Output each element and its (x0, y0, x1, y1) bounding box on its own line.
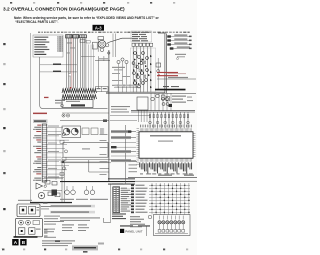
connector CN601 header text (112, 183, 131, 184)
wire links (110, 116, 150, 121)
legend block (power supply note box) (33, 35, 63, 57)
regulator block IC202 (137, 97, 148, 122)
red net label REMOTE (33, 113, 47, 115)
capacitor C103 (108, 52, 110, 54)
component cluster near CN102 (80, 40, 90, 44)
badge A (12, 239, 18, 245)
block motor unit (62, 126, 81, 138)
model tag grey box (72, 245, 98, 252)
drive motor M101 (98, 37, 106, 48)
wire shield bus bottom-left (30, 202, 72, 203)
wire bus tap lead 2 (167, 39, 191, 42)
guide badge A-3 (93, 25, 105, 31)
wire bus top corner (158, 32, 166, 34)
wire pair to Q103 (113, 34, 116, 58)
net label rows above badge (120, 225, 150, 226)
wire CN601 left drop (110, 183, 112, 222)
op-amp IC301 (36, 183, 43, 189)
connector CN601 (dual-row pin strip) (113, 187, 120, 213)
connector CN201 pins (132, 43, 153, 46)
components on CN301 wires (60, 133, 68, 176)
wire ribbon B (4 wires) (81, 38, 86, 89)
component designator labels row across schematic top (38, 32, 190, 33)
motor M2 (loading) (71, 128, 78, 135)
resistor network R302 (52, 181, 57, 185)
pin labels left of CN301 (33, 125, 41, 181)
IC101 mechanism driver (62, 100, 93, 108)
wires to power bus (151, 93, 171, 111)
label band cells above bus (114, 84, 140, 87)
key matrix grid (149, 183, 190, 215)
capacitor C102 (106, 44, 109, 47)
labels right of CN601 (120, 188, 131, 212)
net labels near bus (111, 106, 130, 113)
svg-text:74: 74 (2, 248, 6, 252)
wire collector bus right of CN301 (55, 128, 57, 180)
IC501 bottom pin labels (vertical) (139, 162, 193, 174)
resistor R303 (48, 192, 53, 196)
legend text rows (50, 199, 108, 231)
transistor array Q201-Q212 (130, 48, 156, 92)
IC501 right pin ticks (193, 134, 196, 157)
wire horizontal bus (double) (106, 92, 196, 93)
wire ribbon C (6 wires) (133, 46, 151, 92)
wire mech line 1 (62, 112, 109, 114)
wire to bus (95, 60, 110, 62)
regulator blocks (162, 95, 170, 101)
bottom black bar under box2 (14, 236, 38, 238)
labels above divider (158, 175, 194, 176)
label box CN103 (96, 87, 109, 92)
small dash mark (55, 240, 60, 241)
IC501 system control microcomputer (139, 132, 193, 158)
wire divider 2 (128, 180, 197, 182)
wire audio lines (43, 160, 64, 202)
resistor R304 (55, 193, 60, 197)
capacitors C110 C111 (62, 114, 70, 117)
wire key lead 1 (red) (157, 72, 186, 74)
wire drop (89, 160, 109, 172)
wire cap link (103, 56, 105, 61)
transistors Q103-Q105 (112, 58, 130, 93)
net label block right (162, 86, 194, 107)
sub text rows upper (44, 97, 65, 107)
labels left of IC501 rows (129, 161, 138, 172)
wire vertical link x125 (124, 125, 126, 184)
flexible flat cable connector CN103 (zigzag) (62, 87, 97, 99)
registration marks top margin (10, 2, 175, 4)
wires right of CN301 with labels (47, 126, 69, 179)
wire mute line with arrow (61, 161, 110, 164)
wire keys to matrix (146, 226, 148, 236)
badge B (20, 239, 26, 245)
wire key lead 2 (red) (157, 75, 178, 76)
wire mech line 2 (60, 120, 109, 122)
capacitor C101 (100, 48, 104, 52)
ribbon bus rows to IC501 (111, 130, 136, 161)
wire CN601 to bus (104, 218, 111, 223)
connector CN301 tall pin strip (42, 124, 47, 182)
transistor pair Q401 Q402 (65, 186, 76, 195)
block audio board outline (63, 143, 108, 158)
wire audio out 1 (62, 159, 111, 161)
resistor/transistor drop array (149, 112, 190, 128)
ribbon tiny labels (67, 43, 76, 54)
panel keys box (148, 215, 190, 236)
relay RY301 (dark) (52, 190, 58, 196)
svg-text:“ELECTRICAL PARTS LIST”.: “ELECTRICAL PARTS LIST”. (15, 20, 59, 24)
wire divider (128, 177, 197, 179)
rear panel box 2 (AV jacks) (16, 218, 43, 236)
rectifier D101 (93, 42, 98, 49)
wire bus tap lead 4 (170, 47, 192, 50)
label for box1 (41, 206, 51, 209)
wire audio out 2 (62, 162, 111, 164)
svg-text:A-3: A-3 (95, 26, 102, 31)
svg-text:PANEL UNIT: PANEL UNIT (125, 229, 143, 233)
registration marks bottom margin (2, 243, 188, 251)
italic note vertical drive (175, 54, 186, 60)
wire bus tap lead 3 (167, 43, 191, 46)
resistor network R301 (45, 180, 50, 184)
wire secondary drop 2 (97, 56, 99, 88)
pickup unit blocks (82, 128, 104, 135)
sub-block IC201 (156, 58, 161, 89)
label above box1 (18, 200, 32, 201)
wire main vertical bus (108, 50, 110, 182)
badge B PANEL UNIT (120, 229, 143, 234)
wire secondary drop (97, 40, 99, 52)
connector CN102 header (80, 35, 87, 38)
panel key switches (155, 216, 188, 234)
notes right of boxes (43, 203, 64, 238)
IC501 top pin labels (140, 125, 192, 128)
grey tag KEY UNIT (33, 119, 48, 123)
bottom paragraph (42, 240, 75, 246)
wire AC line 1 (40, 64, 77, 66)
IC501 left pin ticks (137, 129, 140, 165)
transistor Q205 (151, 97, 155, 101)
key name labels below matrix (130, 216, 145, 227)
electrolytic C301 (38, 192, 44, 198)
wire FL display bus (double vertical) (165, 34, 167, 94)
wire key lead 3 (157, 77, 196, 79)
wire drops from rectifier (89, 45, 94, 89)
IC501 bottom pin hatch (140, 158, 191, 162)
IC501 top pin hatch (140, 128, 191, 132)
transistor pair Q403 Q404 (84, 186, 95, 195)
key matrix rows labels (131, 184, 148, 213)
net labels left of bus lower (100, 134, 109, 175)
svg-text:3.2 OVERALL CONNECTION DIAGRA: 3.2 OVERALL CONNECTION DIAGRAM(GUIDE PAG… (3, 7, 125, 13)
wire power rail bus (double) (131, 111, 195, 112)
wire main horizontal bus lower (60, 178, 135, 184)
registration marks left margin (3, 43, 5, 210)
text rows below CN601 (112, 213, 126, 219)
wire ground bus (thick) (155, 89, 186, 91)
wire schematic left border (30, 33, 32, 202)
block outline main chassis (rounded corner) (40, 57, 108, 109)
capacitor C302 (44, 185, 46, 187)
transistor Q206 (156, 94, 160, 98)
wire transformer feed (108, 38, 133, 43)
rear panel box 1 (digital out) (17, 204, 40, 217)
motor M1 (spindle) (63, 128, 70, 135)
wire ribbon A (7 wires, one red) (67, 38, 78, 89)
inline connector break marks (69, 73, 71, 76)
label block CN201 listing (131, 31, 152, 42)
connector CN101 header (66, 35, 79, 38)
wire AC line 2 (40, 71, 77, 73)
wire cross link (81, 56, 95, 58)
wire bus tap lead 1 (167, 35, 191, 38)
